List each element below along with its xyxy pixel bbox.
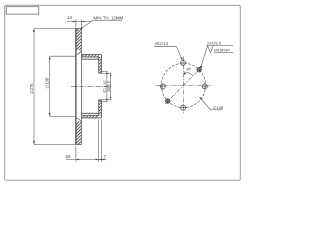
45 arc arrow: [184, 72, 187, 75]
locating hole NE (hatched): [196, 67, 202, 73]
dim Ø71.07 line: [106, 72, 108, 102]
bolt hole bottom: [180, 104, 187, 111]
fillet ring-to-hat bottom: [77, 118, 82, 123]
dim 55 extension left: [75, 146, 77, 162]
55 arrows: [76, 159, 79, 161]
title tab box: [6, 7, 38, 15]
hat top outer surface: [81, 55, 101, 74]
horizontal centerline: [156, 85, 213, 87]
svg-text:7: 7: [104, 154, 107, 159]
hat top inner fillet edge: [81, 58, 98, 60]
svg-text:45°: 45°: [186, 68, 192, 72]
fillet ring-to-hat top: [77, 49, 82, 54]
dim 14 line: [67, 21, 91, 23]
svg-text:∅108: ∅108: [213, 105, 224, 110]
dim Ø276 line: [33, 29, 35, 145]
Ø276 arrows: [33, 29, 35, 32]
bore edge top: [99, 72, 102, 74]
bolt hole top: [180, 59, 187, 66]
7 arrows: [99, 159, 102, 161]
dim 55 line: [66, 159, 107, 161]
hub plate hatch top: [99, 57, 102, 73]
svg-text:∅63.5: ∅63.5: [107, 81, 111, 92]
friction ring hatch bottom: [76, 122, 82, 145]
dim Ø63.5 line: [110, 73, 112, 100]
svg-text:14: 14: [67, 15, 72, 20]
dim 14 extension right: [80, 20, 82, 28]
friction ring outline: [76, 29, 82, 145]
hat bottom inner surface: [81, 100, 98, 116]
dim 7 extension right: [100, 120, 102, 163]
45 degree dimension arc: [184, 72, 194, 76]
svg-text:MIN TH. 12MM: MIN TH. 12MM: [94, 15, 124, 20]
arrowheads left view: [33, 21, 111, 161]
dim Ø138 extension bottom: [50, 115, 76, 117]
centerline of section: [71, 85, 113, 87]
Ø71.07 arrows: [106, 72, 108, 75]
svg-text:2X∅8.5: 2X∅8.5: [207, 41, 222, 46]
bolt hole right: [201, 83, 208, 90]
friction ring left silhouette edge: [75, 29, 77, 145]
dim Ø71.07 extension lines: [100, 71, 107, 73]
svg-text:4X∅13: 4X∅13: [155, 41, 169, 46]
dim 14 extension left: [75, 20, 77, 28]
label Ø108: [200, 98, 211, 110]
bolt circle (dashed): [161, 63, 205, 107]
friction ring hatch top: [76, 29, 82, 51]
14 arrows: [73, 21, 76, 23]
svg-text:∅276: ∅276: [29, 83, 34, 94]
svg-text:∅138: ∅138: [45, 77, 50, 88]
dim Ø138 line: [49, 56, 51, 116]
dim Ø63.5 extension lines: [102, 72, 112, 74]
leader MIN TH 12MM: [82, 21, 93, 29]
svg-text:M15FHP: M15FHP: [214, 48, 230, 53]
dim Ø276 extension bottom: [34, 144, 76, 146]
hat bottom outer surface: [81, 100, 101, 118]
dim 55/7 extension mid: [98, 120, 100, 163]
dim Ø138 extension top: [50, 55, 76, 57]
svg-text:55: 55: [66, 154, 71, 159]
hat top inner surface: [81, 57, 98, 73]
hat bottom inner fillet edge: [81, 112, 98, 114]
locating hole SW (hatched): [165, 98, 171, 104]
Ø138 arrows: [49, 56, 51, 59]
hat wall hatch top: [81, 55, 98, 57]
leader dot MIN TH: [81, 27, 83, 29]
bore edge bottom: [99, 99, 102, 101]
hub plate hatch bottom: [99, 100, 102, 116]
45 degree diagonal centerline: [165, 66, 203, 104]
dim Ø276 extension top: [34, 28, 76, 30]
Ø63.5 arrows: [110, 73, 112, 76]
vertical centerline: [182, 57, 184, 114]
bolt hole left: [159, 83, 166, 90]
drawing sheet frame: [5, 5, 241, 180]
hat wall hatch bottom: [81, 116, 98, 118]
